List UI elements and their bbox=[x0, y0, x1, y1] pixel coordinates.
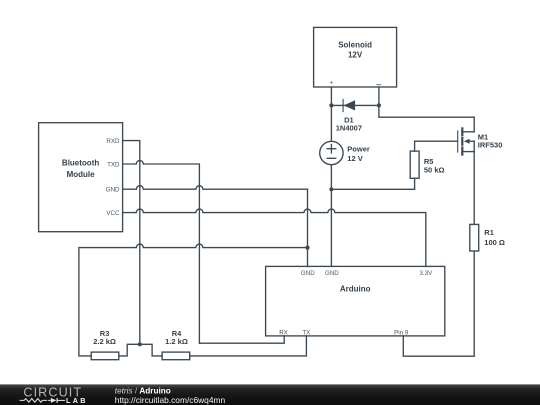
solenoid SOL1 bbox=[314, 27, 397, 87]
node junction: RXD to R3/R4 bbox=[138, 342, 142, 346]
wire TXD trunk bbox=[123, 161, 200, 344]
svg-text:Arduino: Arduino bbox=[340, 284, 371, 293]
svg-text:Bluetooth: Bluetooth bbox=[62, 159, 99, 168]
resistor R4 bbox=[162, 329, 190, 360]
wire R3 to R4 jog bbox=[119, 344, 162, 356]
wire R4 to Arduino TX bbox=[190, 336, 307, 356]
wire GND left branch to R3 bbox=[79, 244, 308, 356]
resistor R5 bbox=[410, 151, 444, 178]
svg-text:TXD: TXD bbox=[107, 161, 120, 168]
svg-text:3.3V: 3.3V bbox=[420, 270, 434, 277]
wire R5 top to gate bbox=[415, 141, 458, 151]
svg-text:RX: RX bbox=[279, 329, 288, 336]
svg-text:Power: Power bbox=[347, 145, 370, 154]
wire solenoid minus lead bbox=[378, 87, 380, 105]
svg-text:VCC: VCC bbox=[106, 210, 120, 217]
svg-text:GND: GND bbox=[106, 186, 120, 193]
svg-text:100 Ω: 100 Ω bbox=[484, 238, 505, 247]
svg-text:50 kΩ: 50 kΩ bbox=[424, 165, 445, 174]
svg-text:TX: TX bbox=[302, 329, 310, 336]
svg-text:http://circuitlab.com/c6wq4mn: http://circuitlab.com/c6wq4mn bbox=[115, 395, 226, 405]
wire MOSFET source to R1 bbox=[473, 152, 475, 225]
svg-text:RXD: RXD bbox=[106, 138, 120, 145]
wire R1 bottom to Pin 9 bbox=[403, 251, 474, 356]
circuitlab logo bbox=[20, 386, 88, 405]
resistor R3 bbox=[91, 329, 119, 360]
svg-text:12 V: 12 V bbox=[347, 154, 362, 163]
wire TXD to Arduino RX bbox=[199, 336, 284, 343]
resistor R1 bbox=[470, 224, 505, 251]
svg-text:Module: Module bbox=[67, 170, 96, 179]
transistor M1 IRF530 bbox=[458, 128, 503, 154]
wire RXD trunk bbox=[123, 141, 140, 345]
footer bar bbox=[0, 384, 540, 405]
node junction: solenoid-/diode/drain wire bbox=[377, 103, 381, 107]
svg-text:+: + bbox=[330, 80, 334, 87]
wire solenoid plus lead bbox=[330, 87, 332, 105]
svg-text:1.2 kΩ: 1.2 kΩ bbox=[165, 337, 188, 346]
svg-text:Solenoid: Solenoid bbox=[338, 40, 372, 49]
node junction: GND net T bbox=[305, 246, 309, 250]
wire bluetooth GND net bbox=[123, 186, 308, 267]
svg-text:R1: R1 bbox=[484, 228, 494, 237]
svg-text:LAB: LAB bbox=[66, 397, 88, 405]
wire power minus trunk to Arduino GND bbox=[330, 165, 332, 267]
diode D1 bbox=[331, 99, 379, 132]
svg-text:GND: GND bbox=[301, 270, 315, 277]
wire diode to MOSFET drain bbox=[379, 105, 474, 131]
svg-text:1N4007: 1N4007 bbox=[336, 123, 362, 132]
wire R5 bottom branch bbox=[331, 178, 414, 189]
wire bluetooth VCC to Arduino 3.3V bbox=[123, 209, 426, 266]
svg-text:2.2 kΩ: 2.2 kΩ bbox=[93, 337, 116, 346]
svg-text:12V: 12V bbox=[348, 50, 363, 59]
arduino U2 bbox=[266, 266, 445, 336]
svg-text:GND: GND bbox=[325, 270, 339, 277]
wire power plus lead bbox=[330, 105, 332, 141]
power source V1 12V bbox=[320, 141, 370, 164]
svg-text:Pin 9: Pin 9 bbox=[394, 329, 409, 336]
node junction: solenoid+/diode/power bbox=[329, 103, 333, 107]
node junction: power minus / R5 branch bbox=[329, 187, 333, 191]
bluetooth module U1 bbox=[39, 123, 123, 232]
svg-text:IRF530: IRF530 bbox=[478, 141, 503, 150]
